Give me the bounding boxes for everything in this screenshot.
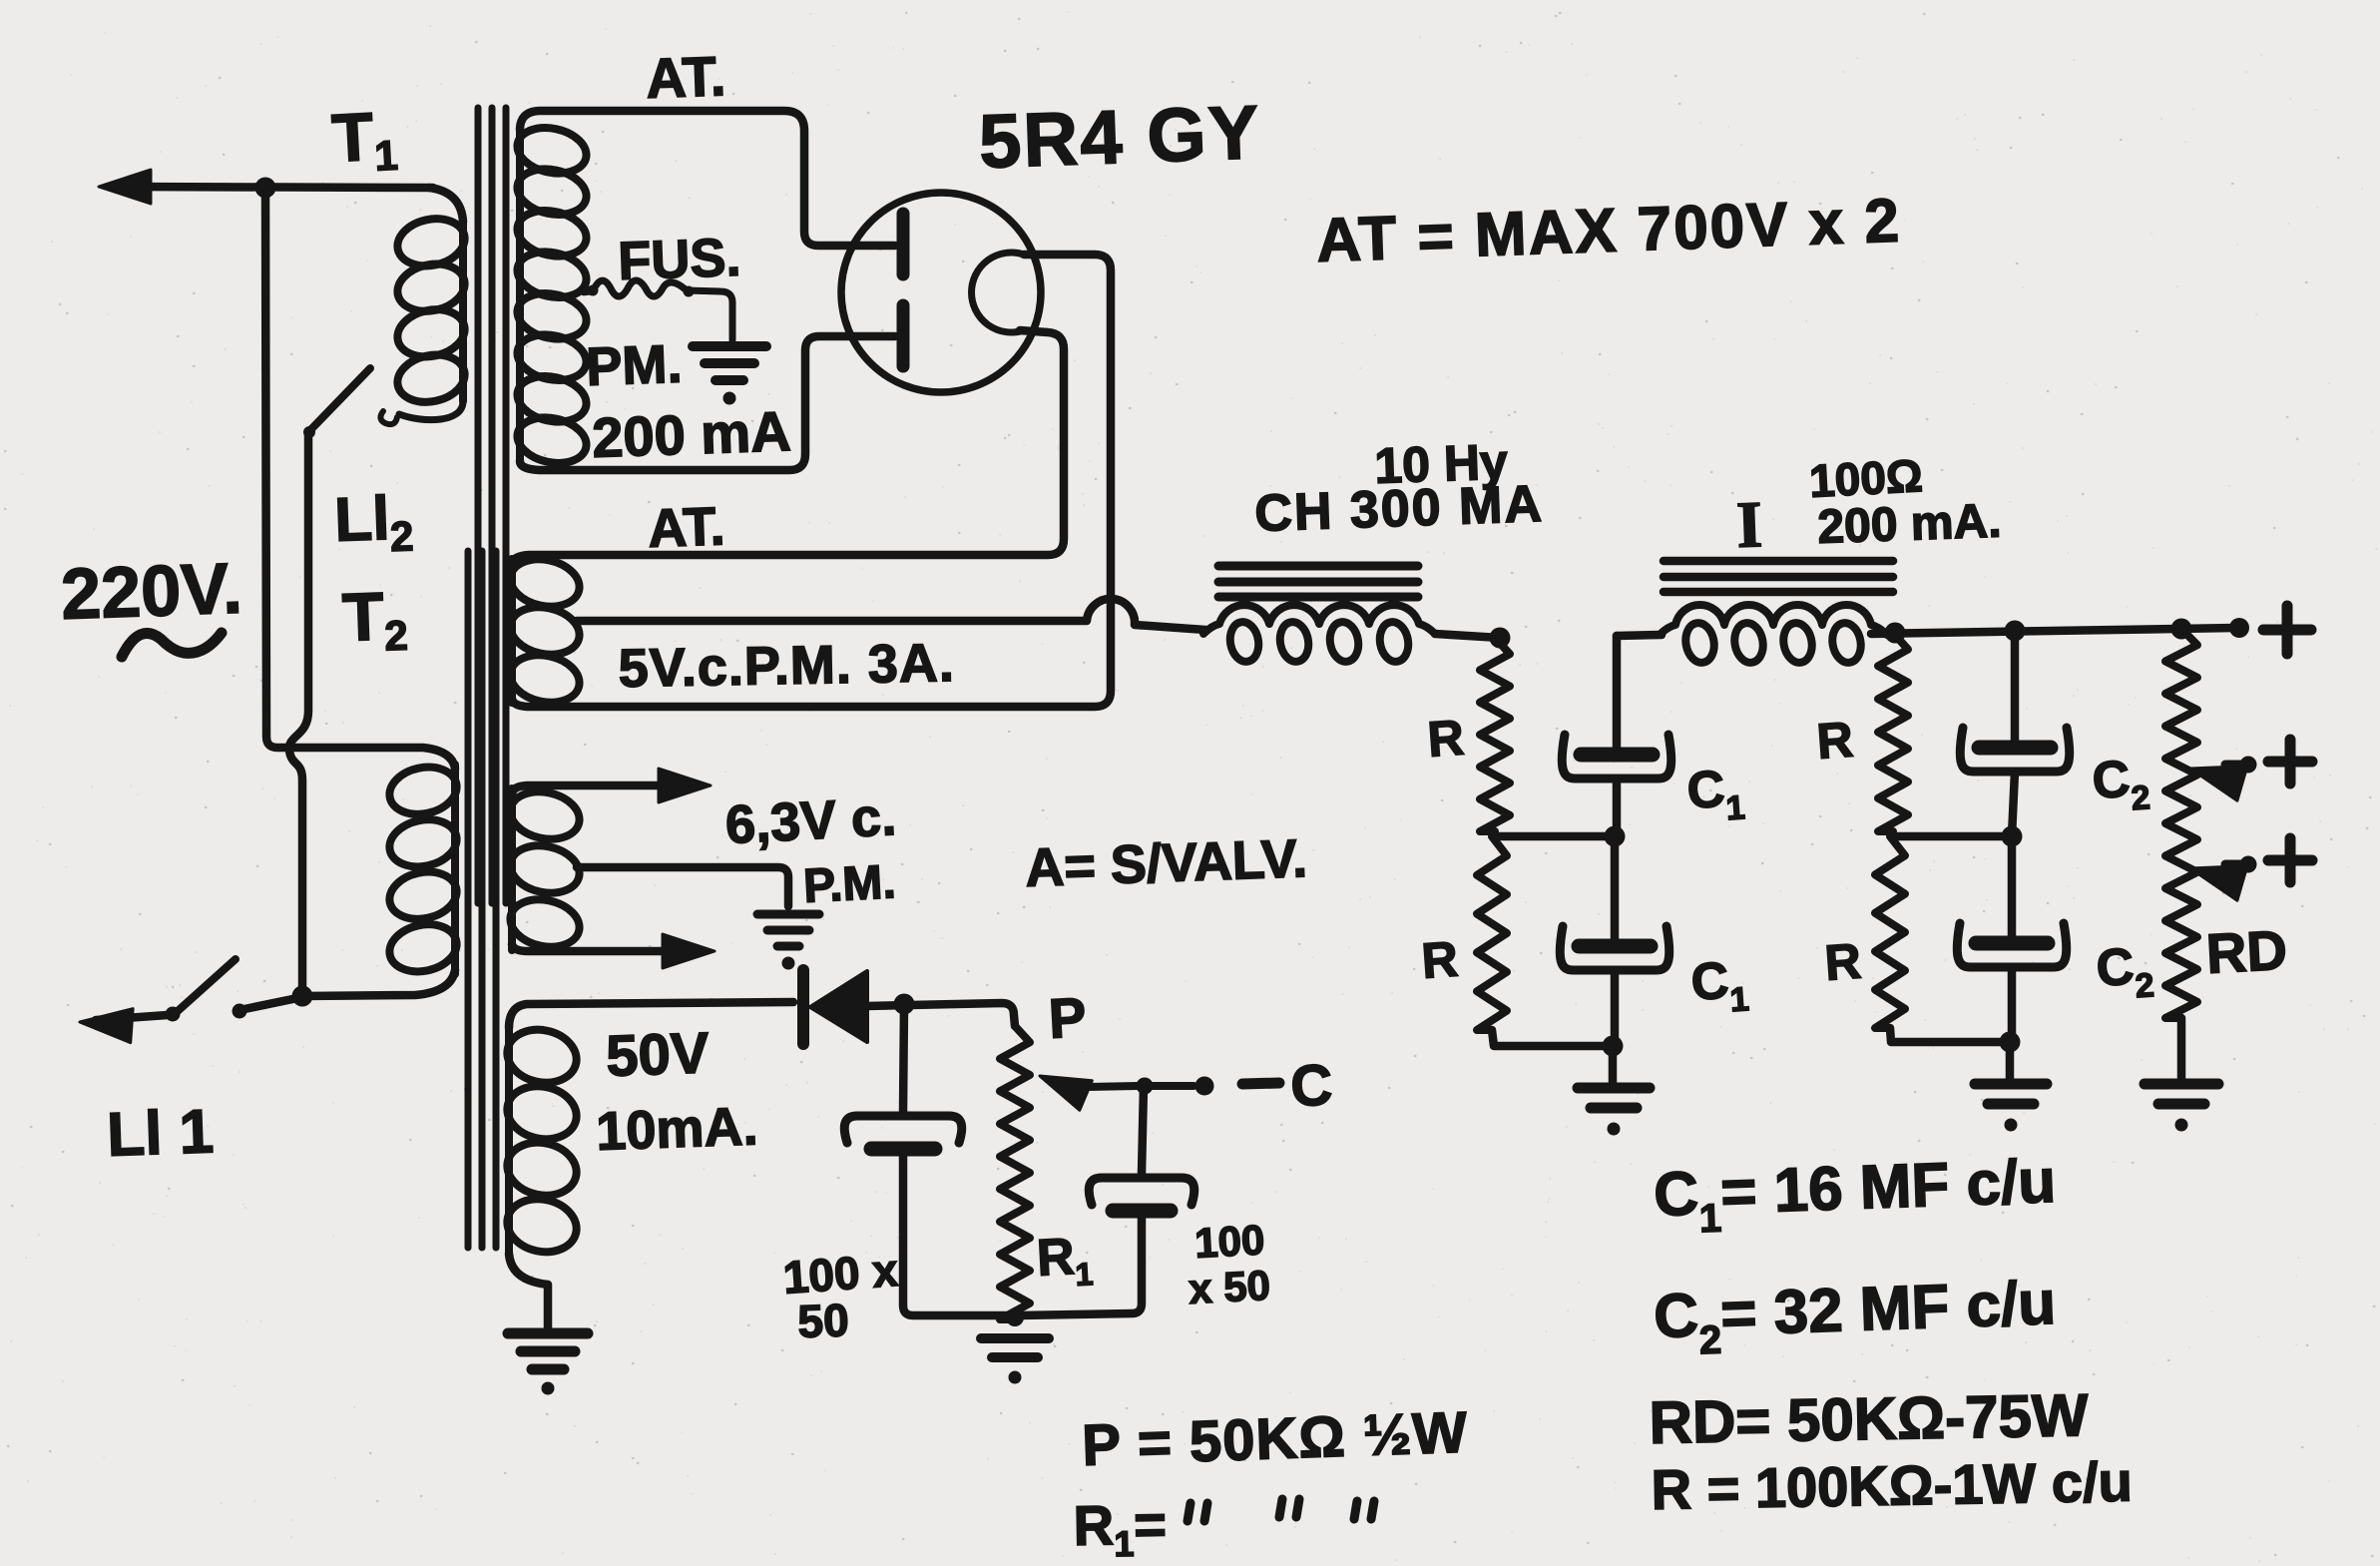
transformer T2 secondary 50V winding — [502, 1023, 581, 1258]
svg-text:50V: 50V — [605, 1020, 711, 1089]
wire: bank1 ground lead — [1609, 1046, 1618, 1084]
svg-text:x 50: x 50 — [1188, 1262, 1271, 1312]
label: PM. — [585, 334, 683, 397]
wire: LI1 contact to junction — [244, 997, 302, 1009]
wire: diode to P top — [867, 1003, 1015, 1026]
wire: cap no.1 to bottom rail — [903, 1149, 1012, 1315]
wire: C1 upper lead — [1613, 636, 1622, 748]
wire: filament top lead to 5V return — [512, 255, 1111, 707]
resistor RD — [2165, 629, 2197, 1018]
svg-text:10mA.: 10mA. — [595, 1096, 758, 1162]
label: 100 (cap2) — [1193, 1216, 1265, 1267]
node: wiper junction — [1137, 1078, 1154, 1095]
switch LI2 pivot dot — [303, 426, 315, 438]
node: diode output junction — [894, 994, 915, 1015]
switch LI2 blade — [309, 368, 370, 431]
resistor R upper (bank2) — [1878, 633, 1908, 831]
label: x 50 (cap2) — [1188, 1262, 1271, 1312]
label: + tap1 — [2268, 740, 2312, 783]
choke CH core — [1218, 566, 1418, 597]
label: P = 50K ohm 1/2W — [1081, 1400, 1469, 1478]
wire: 6.3V bottom lead — [512, 944, 663, 951]
label: 5V.c.P.M. 3A. — [618, 633, 955, 699]
ground: bank2 — [1975, 1084, 2047, 1132]
svg-text:P = 50KΩ ½W: P = 50KΩ ½W — [1081, 1400, 1469, 1478]
wire: bank2 mid tie — [1891, 831, 2010, 836]
fuse terminal dots — [588, 285, 695, 297]
label: CH 300 MA — [1253, 475, 1544, 543]
svg-text:5V.c.P.M. 3A.: 5V.c.P.M. 3A. — [618, 633, 955, 699]
node: P bottom junction — [1006, 1308, 1024, 1326]
svg-text:R: R — [1823, 933, 1863, 991]
capacitor C2 upper — [1960, 728, 2070, 772]
label: T1 — [330, 98, 399, 182]
svg-text:A= S/VALV.: A= S/VALV. — [1024, 828, 1308, 898]
wire: filament bottom lead — [512, 330, 1064, 563]
label: + tap2 — [2268, 838, 2312, 882]
capacitor 100x50 no.2 — [1089, 1178, 1194, 1211]
wire: C2 lower lead — [2008, 836, 2017, 936]
label: 200 mA — [591, 399, 791, 469]
node: line A junction — [255, 178, 276, 199]
wire: AT center tap to fuse — [584, 290, 593, 291]
transformer T2 secondary 5V winding — [506, 553, 584, 709]
resistor R lower (bank1) — [1477, 836, 1507, 1030]
label: 220V. — [60, 549, 243, 635]
fuse FUS — [593, 280, 732, 340]
wire: LI1 terminal stub — [96, 1015, 168, 1020]
terminal: B+ output dot — [2229, 618, 2249, 638]
label: C1 = 16 MF c/u — [1653, 1147, 2058, 1243]
node: bank2 bottom junction — [2000, 1032, 2021, 1053]
ground: fuse PM ground — [693, 346, 766, 405]
wire: junction to cap 100x50 no.1 — [903, 1004, 904, 1112]
wire: AT bottom end — [520, 336, 895, 470]
wire: bank1 mid tie — [1493, 831, 1615, 836]
label: 6,3V c. — [723, 786, 897, 855]
label: AT = MAX 700Vx2 — [1315, 187, 1902, 275]
label: 50 (cap1) — [797, 1294, 850, 1347]
wire: junction B to T2 primary bottom — [302, 970, 455, 996]
label: 100 X (cap1) — [781, 1244, 900, 1304]
switch LI2 contact hook — [380, 411, 397, 424]
svg-text:220V.: 220V. — [60, 549, 243, 635]
resistor R upper (bank1) — [1480, 638, 1510, 831]
label: C2 lower — [2095, 936, 2155, 1008]
wire: RD ground lead — [2177, 1018, 2186, 1080]
node: bank2 mid junction — [2002, 826, 2023, 847]
label: R bank1 lower — [1420, 931, 1460, 989]
terminal arrow: 220V line B (LI1) — [80, 1009, 133, 1043]
label: -C — [1242, 1053, 1333, 1119]
node: B+ at I output — [1885, 623, 1906, 644]
wire: bank2 ground lead — [2006, 1042, 2015, 1080]
capacitor 100x50 no.1 — [844, 1116, 962, 1149]
transformer T1 secondary AT winding — [513, 122, 591, 469]
label: 10 Hy — [1373, 433, 1508, 494]
wire: 6.3V center tap to ground — [577, 867, 788, 906]
ground: 50V winding — [508, 1333, 588, 1395]
wire: T1 primary bottom curl to LI2 contact — [399, 401, 463, 420]
node: bank1 R top — [1490, 628, 1511, 649]
wire: wiper to -C terminal — [1145, 1082, 1193, 1090]
label: RD — [2204, 918, 2288, 985]
transformer I core — [1664, 561, 1893, 592]
diode D1 triangle — [810, 971, 867, 1042]
wire: line A down to T2 primary top — [265, 188, 455, 769]
capacitor C1 upper — [1562, 735, 1671, 779]
capacitor C2 lower — [1957, 923, 2067, 967]
label: 200 mA. — [1817, 495, 2003, 554]
label: I — [1735, 488, 1763, 562]
svg-text:P.M.: P.M. — [802, 855, 897, 913]
svg-text:R: R — [1815, 712, 1855, 770]
svg-text:R: R — [1426, 710, 1466, 768]
svg-text:RD= 50KΩ-75W: RD= 50KΩ-75W — [1649, 1381, 2089, 1456]
wire: C2 upper to mid — [2012, 772, 2015, 836]
tap arrow: RD lower — [2190, 864, 2247, 900]
tube U1 plate 1 (pin 4) — [897, 214, 910, 274]
label: R bank2 upper — [1815, 712, 1855, 770]
switch LI1 contact dot — [233, 1004, 247, 1019]
svg-text:C: C — [1289, 1053, 1333, 1119]
wire: B+ rail — [1871, 628, 2235, 634]
wire: 50V bottom lead — [509, 1254, 548, 1327]
svg-text:5R4 GY: 5R4 GY — [978, 90, 1262, 185]
wire: wiper junction down to cap no.2 — [1142, 1086, 1144, 1174]
ground: RD — [2144, 1084, 2218, 1132]
node: bank1 mid junction — [1605, 826, 1626, 847]
label: LI1 — [106, 1097, 215, 1170]
label: P.M. — [802, 855, 897, 913]
tube U1 5R4GY envelope — [841, 193, 1041, 392]
wire: cap no.2 to bottom rail — [1018, 1211, 1142, 1315]
terminal arrow: 220V line A — [99, 170, 151, 204]
label: R1 — [1036, 1227, 1095, 1295]
svg-text:RD: RD — [2204, 918, 2288, 985]
label: RD = 50K ohm - 75W — [1649, 1381, 2089, 1456]
label: 5R4 GY — [978, 90, 1262, 185]
wiper arrow: P — [1040, 1076, 1138, 1110]
switch LI1 pivot dot — [166, 1007, 181, 1022]
choke CH winding — [1203, 605, 1435, 664]
wire: C1 upper to mid — [1613, 779, 1622, 836]
resistor R lower (bank2) — [1875, 836, 1905, 1028]
label: FUS. — [617, 228, 741, 291]
svg-text:R: R — [1420, 931, 1460, 989]
wire: C1 lower lead — [1611, 836, 1620, 939]
terminal: -C dot — [1195, 1077, 1214, 1096]
wire: 50V top lead to diode — [509, 1002, 793, 1028]
label: LI2 — [333, 483, 414, 562]
label: P (pot) — [1047, 985, 1088, 1050]
wire: AT top end — [520, 111, 895, 246]
wire: C2 upper lead — [2011, 631, 2020, 741]
wire: C2 lower to bottom — [2008, 967, 2017, 1042]
ground: 6.3V PM — [757, 914, 819, 970]
transformer T2 primary winding — [385, 762, 461, 978]
terminal arrow: 6.3V top — [659, 769, 711, 802]
label: C2 upper — [2091, 749, 2151, 820]
potentiometer P — [1000, 1026, 1030, 1319]
svg-text:200 mA.: 200 mA. — [1817, 495, 2003, 554]
label: 100 ohm — [1808, 449, 1924, 507]
wire: filter junction to transformer I — [1617, 635, 1662, 636]
diode D1 cathode bar — [797, 970, 809, 1044]
node: bank1 bottom junction — [1603, 1036, 1624, 1057]
ground: bank1 — [1578, 1088, 1650, 1136]
label: R bank2 lower — [1823, 933, 1863, 991]
ground: bias network — [981, 1338, 1049, 1384]
transformer T1 primary winding — [393, 213, 469, 408]
wire: 6.3V top lead — [512, 785, 659, 794]
svg-text:P: P — [1047, 985, 1088, 1050]
label: + main — [2263, 606, 2311, 654]
wire: line A to T1 primary top — [429, 188, 463, 222]
terminal arrow: 6.3V bottom — [663, 934, 714, 968]
node: RD lower tap — [2240, 856, 2257, 873]
wire: bank2 bottom tie — [1890, 1028, 2008, 1042]
wire: 220V line A top — [115, 187, 433, 188]
svg-text:AT.: AT. — [645, 44, 726, 110]
label: R = 100K ohm - 1W c/u — [1651, 1450, 2133, 1521]
transformer I winding — [1660, 605, 1887, 665]
svg-text:200 mA: 200 mA — [591, 399, 791, 469]
transformer T2 core — [468, 551, 496, 1248]
svg-text:AT.: AT. — [647, 496, 725, 559]
wire: bank1 bottom tie — [1492, 1030, 1611, 1046]
tap arrow: RD upper — [2190, 765, 2247, 800]
node: B+ at C2 branch — [2005, 621, 2026, 642]
label: T2 — [341, 578, 409, 661]
node: line B junction — [292, 986, 313, 1007]
wire: LI2 pole vertical — [289, 435, 308, 990]
label: 220V tilde — [122, 633, 222, 657]
tube U1 filament — [972, 253, 1024, 332]
svg-text:PM.: PM. — [585, 334, 683, 397]
transformer T1 core — [478, 108, 506, 903]
label: C1 lower — [1689, 950, 1750, 1022]
node: B+ at RD — [2171, 619, 2192, 640]
label: C2 = 32 MF c/u — [1653, 1269, 2058, 1364]
svg-text:100: 100 — [1193, 1216, 1265, 1267]
wire: C1 lower to bottom — [1611, 970, 1620, 1046]
svg-text:FUS.: FUS. — [617, 228, 741, 291]
tube U1 plate 2 (pin 6) — [897, 305, 910, 366]
label: C1 upper — [1685, 759, 1746, 830]
svg-text:6,3V c.: 6,3V c. — [723, 786, 897, 855]
svg-text:Ll 1: Ll 1 — [106, 1097, 215, 1170]
svg-text:R = 100KΩ-1W c/u: R = 100KΩ-1W c/u — [1651, 1450, 2133, 1521]
label: 50V — [605, 1020, 711, 1089]
label: AT. top — [645, 44, 726, 110]
capacitor C1 lower — [1560, 926, 1669, 970]
label: 10mA. — [595, 1096, 758, 1162]
node: RD upper tap — [2240, 757, 2257, 774]
transformer T2 secondary 6.3V winding — [506, 785, 584, 953]
label: AT. bottom — [647, 496, 725, 559]
label: R1 = ditto — [1073, 1492, 1374, 1565]
wire: 5V center tap to choke (B+ raw) with hop over — [577, 599, 1205, 630]
switch LI1 blade — [178, 959, 236, 1011]
label: A = S/VALV. — [1024, 828, 1308, 898]
svg-text:I: I — [1735, 488, 1763, 562]
svg-text:50: 50 — [797, 1294, 850, 1347]
wire: choke to filter junction — [1435, 634, 1500, 638]
svg-text:CH 300 MA: CH 300 MA — [1253, 475, 1544, 543]
label: R bank1 upper — [1426, 710, 1466, 768]
